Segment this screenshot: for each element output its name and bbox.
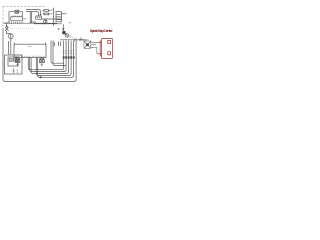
wire pair to mid cluster lower (26, 12, 39, 16)
wire switch to meter (7, 31, 11, 34)
lower-left box enclosure (5, 55, 23, 74)
bus loop 2 (30, 41, 66, 72)
wire diagonal into coil box (81, 38, 85, 42)
wire header pin 2 down (53, 48, 66, 65)
ground below Y2 (16, 63, 19, 67)
wire from T1 right (61, 13, 66, 15)
red label Spark Gap Centre (90, 29, 113, 33)
resistor R1 (43, 10, 51, 12)
transistor Q2 (65, 34, 69, 38)
relay K1 inner box (8, 57, 18, 66)
wire bus to switch (6, 23, 8, 27)
bus loop 5 (38, 41, 74, 78)
bus loop 4 (36, 41, 71, 76)
ground symbol in box (12, 68, 15, 73)
arrow on bus loop 5 (40, 76, 43, 79)
resistor R2 (43, 13, 51, 15)
motor M1 circle (44, 20, 47, 23)
wire header pin 1 down (51, 48, 64, 63)
junction dot mid (44, 18, 54, 24)
wire pair to mid cluster upper (26, 10, 41, 15)
label marks near resistors (51, 9, 53, 14)
capacitor C1 (75, 38, 76, 41)
terminal strip nubs below (5, 22, 22, 25)
wire mid horizontal 2 (34, 23, 62, 25)
meter M2 circle (9, 34, 14, 39)
dashed enclosure left border (2, 6, 4, 28)
bus loop 3 (31, 41, 69, 74)
red connector box (100, 39, 112, 59)
pin circles below U1 right (40, 58, 44, 59)
red stub wires (97, 42, 102, 54)
spark coil box (84, 41, 91, 48)
label marks right of Q2 (69, 36, 74, 38)
transistor Q1 (62, 31, 66, 35)
dashed enclosure top border (3, 5, 45, 7)
mounting posts above U1 (15, 42, 46, 44)
wire top-left loop vertical (9, 12, 15, 24)
label above coil box (84, 39, 89, 41)
wire U2 to mid pair (22, 18, 26, 20)
arrowhead of D1 (62, 28, 65, 31)
plus label (58, 28, 60, 30)
dark core of coil box (86, 43, 89, 46)
label +2 (17, 70, 19, 73)
wire corner to small box (30, 21, 36, 23)
bus loop 1 (28, 41, 63, 70)
wire mid horizontal 1 (42, 18, 62, 20)
dashed label line (10, 27, 34, 29)
IC U1 main (14, 44, 46, 57)
svg-text:Spark Gap Centre: Spark Gap Centre (90, 29, 113, 33)
crystal marks in K1 (9, 58, 16, 61)
diode D2 on wire (80, 39, 83, 41)
pin comb U1 bottom inside (15, 56, 44, 58)
transformer T1 (56, 12, 61, 22)
crystal Y3 below U1 right (40, 59, 45, 62)
junction dots wire ends (38, 14, 41, 17)
switch S1 (5, 26, 9, 31)
wire down to lower red stub (96, 47, 98, 54)
terminal strip ticks (5, 22, 22, 23)
pin circles below U1 left (16, 58, 20, 59)
crystal Y2 below U1 left (15, 59, 20, 62)
wire right cluster to box (60, 40, 86, 41)
wire terminal bus (3, 22, 57, 24)
ground below Y3 (41, 63, 44, 66)
wire from crystal to corner (19, 12, 23, 17)
junction dot right of T1 (69, 22, 70, 23)
net name pads on bus verticals (63, 56, 75, 58)
crystal Y1 (15, 10, 19, 13)
wire left verticals to lower box (8, 41, 10, 55)
header J1 right of U1 (51, 41, 55, 49)
label dot inside U1 (28, 45, 31, 47)
pin ticks U2 (12, 16, 21, 17)
wire cluster verticals (59, 42, 61, 47)
connector J2 small box (36, 16, 42, 19)
diode D1 top right cluster (62, 24, 64, 29)
wire vertical pair mid (30, 12, 31, 24)
junction dots in J2 (37, 17, 40, 18)
net labels on bus verticals (63, 50, 75, 53)
IC U2 top-left box (11, 17, 22, 21)
wire vertical long mid (53, 8, 55, 26)
stub wires from coil box (91, 42, 98, 47)
wire left bus vertical and bottom bus loop (3, 28, 76, 81)
wire meter down (10, 39, 12, 55)
